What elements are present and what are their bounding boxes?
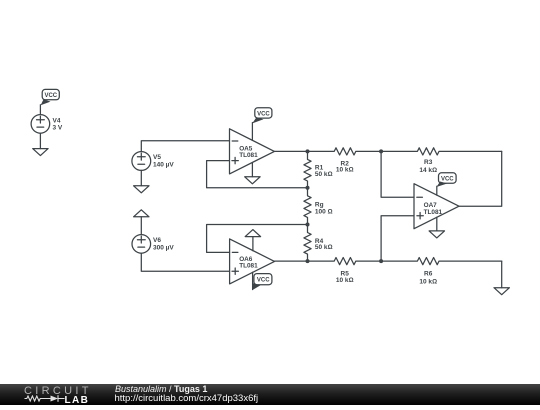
svg-text:V5: V5	[153, 154, 161, 161]
svg-text:V6: V6	[153, 237, 161, 244]
svg-text:3 V: 3 V	[53, 125, 63, 132]
svg-text:R6: R6	[424, 271, 433, 278]
net flag VCC (at OA5)	[252, 108, 272, 124]
net flag VCC (at OA6)	[252, 274, 272, 291]
svg-text:R3: R3	[424, 159, 433, 166]
wire OA6 output to node	[275, 260, 308, 262]
svg-text:140 µV: 140 µV	[153, 162, 174, 169]
svg-text:VCC: VCC	[441, 177, 454, 183]
wire OA5 V- pin	[251, 163, 253, 177]
wire V4 to ground	[39, 133, 41, 148]
resistor R2	[308, 148, 382, 155]
junction node R2/R3/OA7minus	[379, 149, 383, 153]
CircuitLab logo resistor and diode glyph	[24, 395, 65, 404]
wire OA5 V+ pin	[251, 123, 253, 141]
svg-text:50 kΩ: 50 kΩ	[315, 244, 333, 251]
wire OA5 output to node	[274, 150, 307, 152]
footer bar	[0, 384, 540, 405]
svg-text:TL081: TL081	[239, 152, 258, 159]
wire V5 to ground	[140, 170, 142, 185]
svg-text:10 kΩ: 10 kΩ	[419, 278, 437, 285]
op-amp OA7	[414, 184, 459, 229]
net flag VCC (at V4)	[41, 89, 60, 105]
svg-text:VCC: VCC	[257, 278, 270, 284]
wire OA7 V- pin	[436, 217, 438, 231]
voltage source V6	[132, 235, 151, 254]
junction node R4/R5/OA6out	[306, 259, 310, 263]
resistor R1	[304, 151, 311, 187]
wire OA6 V- pin	[252, 272, 254, 289]
voltage source V4	[31, 115, 50, 134]
svg-text:VCC: VCC	[257, 111, 270, 117]
url line	[115, 393, 259, 404]
wire OA7 output loop to R3	[459, 151, 502, 206]
svg-text:50 kΩ: 50 kΩ	[315, 171, 333, 178]
voltage source V5	[132, 152, 151, 171]
wire V6 to OA6 plus input	[141, 253, 229, 271]
svg-text:VCC: VCC	[44, 93, 57, 99]
wire ground to V6	[140, 217, 142, 235]
wire VCC flag to V4	[39, 105, 41, 115]
resistor R3	[381, 148, 502, 155]
junction node R5/R6/OA7plus	[379, 259, 383, 263]
svg-text:14 kΩ: 14 kΩ	[419, 167, 437, 174]
wire OA5 feedback: plus input to R1/Rg node	[207, 161, 308, 188]
ground (below V4)	[33, 149, 48, 156]
wire V5 to OA5 minus input	[141, 141, 229, 152]
svg-text:V4: V4	[53, 117, 61, 124]
resistor R6	[381, 258, 502, 265]
wire OA7 V+ pin	[436, 186, 438, 195]
svg-text:10 kΩ: 10 kΩ	[336, 167, 354, 174]
op-amp OA5	[230, 129, 275, 174]
CircuitLab logo text CIRCUIT	[24, 385, 92, 397]
ground (above V6, pointing up)	[134, 210, 149, 217]
svg-text:300 µV: 300 µV	[153, 244, 174, 251]
ground (below V5)	[134, 186, 149, 193]
resistor R5	[308, 258, 382, 265]
net flag VCC (at OA7)	[436, 173, 456, 187]
credit line	[115, 384, 207, 394]
resistor R4	[304, 225, 311, 262]
ground (below OA5)	[245, 177, 260, 184]
ground (above OA6, pointing up)	[245, 230, 260, 237]
junction node R1/Rg	[306, 186, 310, 190]
resistor Rg	[304, 188, 311, 225]
svg-text:TL081: TL081	[424, 209, 443, 216]
wire OA6 V+ pin to ground	[252, 237, 254, 251]
ground (below OA7)	[429, 231, 444, 238]
CircuitLab logo text LAB	[65, 395, 90, 406]
junction node Rg/R4	[306, 223, 310, 227]
wire node to OA7 minus input	[381, 151, 414, 197]
svg-text:10 kΩ: 10 kΩ	[336, 277, 354, 284]
wire node to OA7 plus input	[381, 216, 414, 261]
svg-text:100 Ω: 100 Ω	[315, 208, 333, 215]
junction node R1/R2/OA5out	[306, 149, 310, 153]
wire R6 to ground	[501, 261, 503, 288]
op-amp OA6	[230, 239, 275, 284]
ground (bottom right)	[494, 288, 509, 295]
svg-text:TL081: TL081	[239, 263, 258, 270]
wire OA6 feedback: minus input to Rg/R4 node	[207, 225, 308, 253]
